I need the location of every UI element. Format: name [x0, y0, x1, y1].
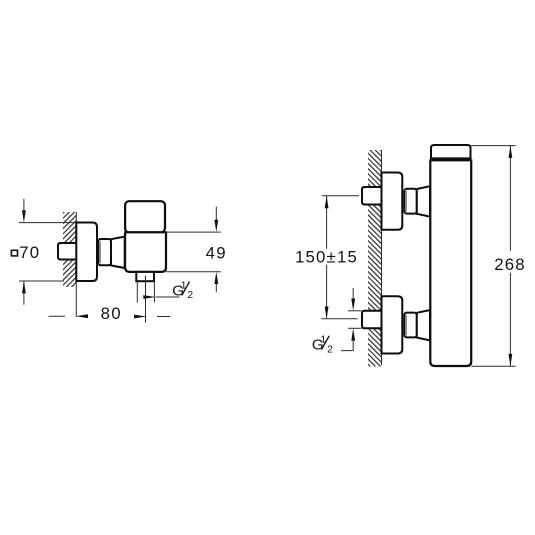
svg-text:49: 49 — [206, 243, 227, 262]
svg-text:150±15: 150±15 — [295, 248, 358, 267]
svg-text:70: 70 — [19, 243, 40, 262]
svg-text:80: 80 — [101, 304, 122, 323]
svg-text:268: 268 — [494, 255, 526, 274]
